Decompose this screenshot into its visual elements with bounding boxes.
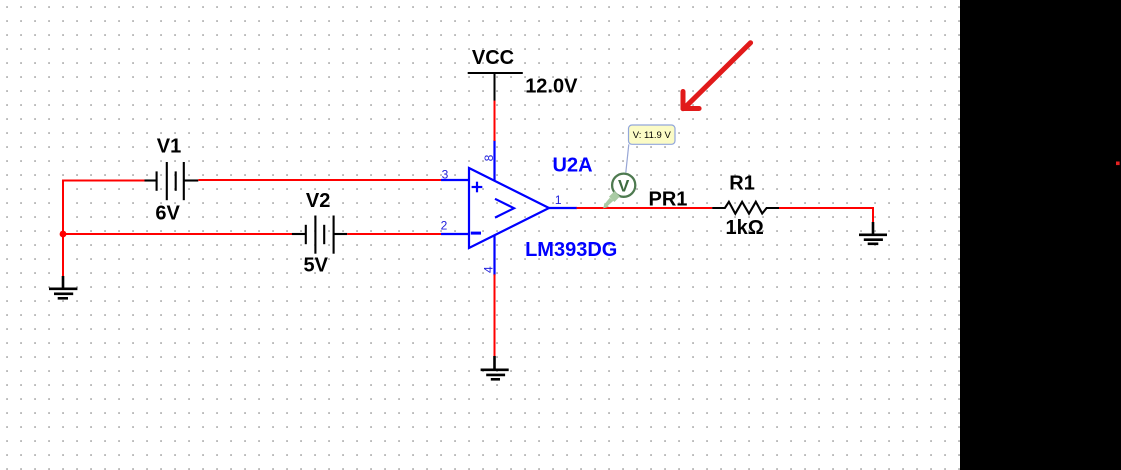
label LM393DG bbox=[525, 239, 617, 261]
op-amp minus input marker bbox=[471, 232, 481, 235]
wire: R1 to right ground bbox=[779, 208, 873, 223]
svg-text:R1: R1 bbox=[729, 172, 755, 194]
svg-text:V1: V1 bbox=[157, 135, 181, 157]
svg-text:LM393DG: LM393DG bbox=[525, 239, 617, 261]
value 12.0V bbox=[525, 76, 578, 98]
svg-text:V: V bbox=[618, 176, 630, 195]
svg-text:PR1: PR1 bbox=[649, 189, 688, 211]
op-amp pin 4 lead (bottom power) bbox=[493, 235, 495, 275]
annotation red arrow bbox=[683, 43, 751, 109]
op-amp U2A triangle body bbox=[469, 168, 549, 248]
probe PR1 handle bbox=[604, 191, 620, 207]
wire: VCC to pin 8 bbox=[494, 100, 496, 141]
comparator > symbol bbox=[495, 199, 514, 218]
op-amp plus input marker bbox=[472, 182, 483, 193]
svg-text:4: 4 bbox=[481, 266, 495, 273]
svg-text:3: 3 bbox=[442, 168, 449, 182]
pin number 1 bbox=[555, 193, 562, 207]
value 6V bbox=[155, 202, 180, 224]
op-amp pin 8 lead (top power) bbox=[493, 140, 495, 181]
pin number 4 (rotated) bbox=[481, 266, 495, 273]
wire: pin 4 to ground bbox=[494, 274, 496, 357]
svg-text:8: 8 bbox=[482, 154, 496, 161]
tooltip V: 11.9 V bbox=[629, 125, 676, 144]
pin number 3 bbox=[442, 168, 449, 182]
label V1 bbox=[157, 135, 181, 157]
op-amp U1 pin 2 lead bbox=[441, 233, 469, 235]
label VCC bbox=[472, 47, 514, 69]
op-amp U1 pin 3 lead bbox=[441, 179, 469, 181]
svg-text:6V: 6V bbox=[155, 202, 180, 224]
wire: bottom net from junction to V2 negative bbox=[63, 233, 292, 235]
ground (right, after R1) bbox=[859, 222, 887, 244]
svg-text:5V: 5V bbox=[303, 254, 328, 276]
small red marker on panel bbox=[1116, 162, 1120, 166]
power symbol VCC bbox=[468, 73, 523, 101]
pin number 2 bbox=[441, 219, 448, 233]
wire: V1 positive to op-amp pin 3 bbox=[198, 179, 441, 181]
svg-text:2: 2 bbox=[441, 219, 448, 233]
label PR1 bbox=[649, 189, 688, 211]
label V2 bbox=[306, 190, 330, 212]
resistor R1 bbox=[712, 202, 779, 214]
pin number 8 (rotated) bbox=[482, 154, 496, 161]
probe PR1 tip bbox=[603, 203, 609, 209]
ground (below op-amp) bbox=[481, 356, 509, 379]
wire: V1 negative to left rail and down to ground bbox=[63, 181, 145, 278]
svg-text:1: 1 bbox=[555, 193, 562, 207]
leader line from probe to tooltip bbox=[626, 144, 629, 172]
probe PR1 circle with V bbox=[612, 174, 635, 197]
svg-text:1kΩ: 1kΩ bbox=[726, 217, 764, 239]
svg-text:V: 11.9 V: V: 11.9 V bbox=[633, 130, 672, 141]
wire: output net to R1 bbox=[577, 207, 713, 209]
op-amp pin 1 output lead bbox=[549, 207, 577, 209]
svg-text:12.0V: 12.0V bbox=[525, 76, 578, 98]
ground (left, under rail) bbox=[49, 276, 77, 298]
label R1 bbox=[729, 172, 755, 194]
svg-text:U2A: U2A bbox=[553, 154, 593, 176]
value 1kΩ bbox=[726, 217, 764, 239]
svg-text:VCC: VCC bbox=[472, 47, 514, 69]
junction node at left rail and V2 wire bbox=[60, 231, 67, 238]
side panel (black) bbox=[960, 0, 1121, 470]
battery V2 5V bbox=[292, 216, 347, 254]
label U2A bbox=[553, 154, 593, 176]
svg-text:V2: V2 bbox=[306, 190, 330, 212]
wire: V2 positive to op-amp pin 2 bbox=[347, 233, 441, 235]
battery V1 6V bbox=[145, 162, 199, 200]
value 5V bbox=[303, 254, 328, 276]
